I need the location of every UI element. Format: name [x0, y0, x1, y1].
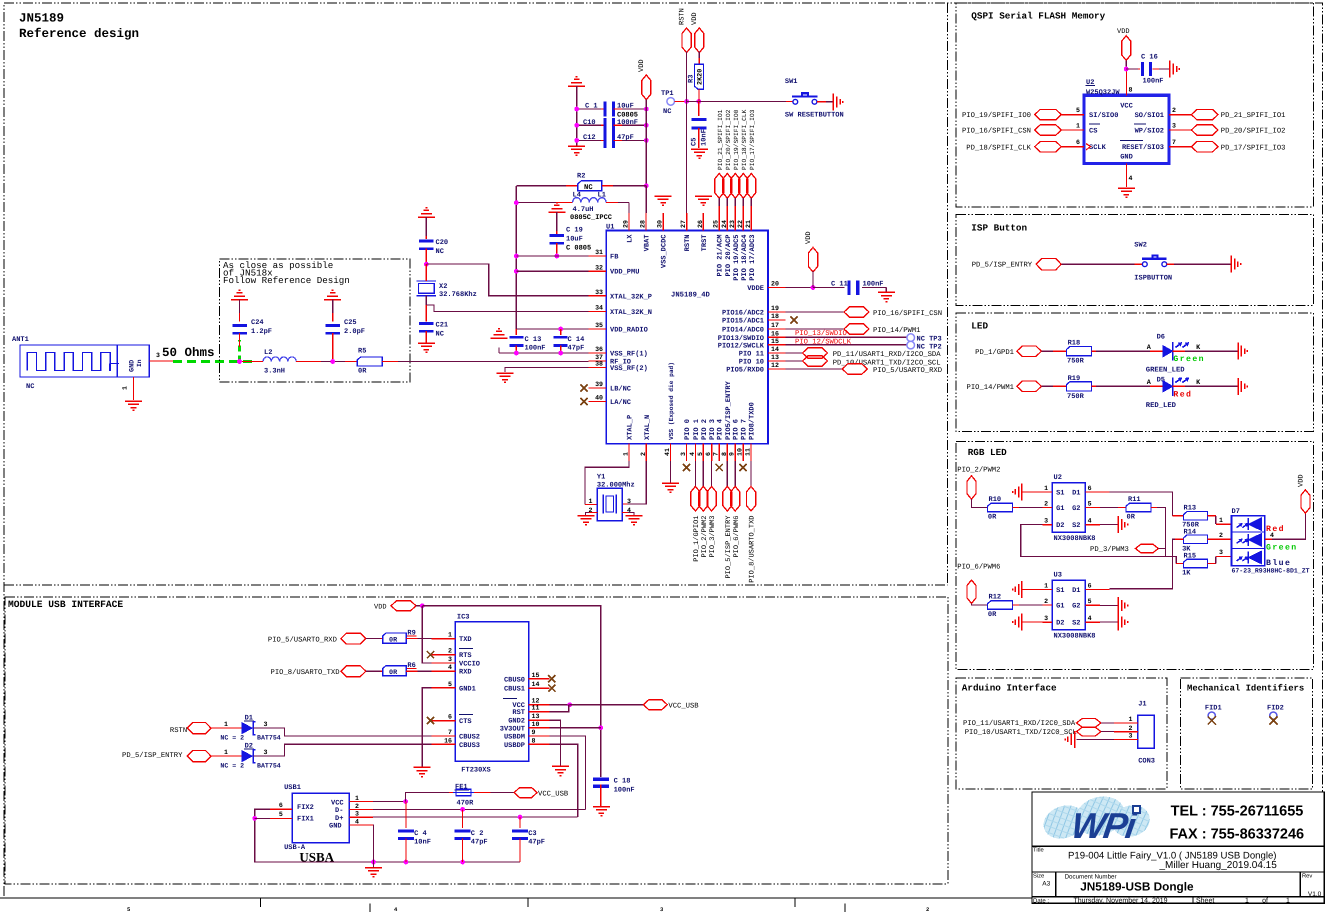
svg-text:1: 1 [1129, 716, 1133, 723]
svg-text:VSS_DCDC: VSS_DCDC [661, 235, 669, 269]
D2 loop to R15/PD_3 [1021, 525, 1176, 564]
junction [574, 138, 579, 143]
U1 pin 27 RSTN [686, 213, 688, 231]
svg-text:2.0pF: 2.0pF [344, 328, 365, 336]
svg-text:G2: G2 [1072, 603, 1080, 611]
svg-text:14: 14 [771, 346, 779, 353]
svg-text:FB: FB [610, 254, 619, 262]
svg-text:6: 6 [1076, 139, 1080, 146]
svg-text:1: 1 [224, 721, 228, 728]
svg-text:PIO14/ADC0: PIO14/ADC0 [722, 326, 764, 335]
Y1 pin2 to ground [589, 512, 597, 514]
svg-text:2: 2 [355, 803, 359, 810]
IC3 pin 6 CTS [431, 720, 455, 722]
U1 pin 15 PIO12/SWCLK [768, 344, 786, 346]
svg-text:PIO_2/PWM2: PIO_2/PWM2 [700, 516, 709, 558]
ground below C5 [691, 149, 708, 158]
svg-text:SW1: SW1 [785, 78, 798, 86]
svg-text:16: 16 [444, 737, 452, 744]
junction [644, 123, 649, 128]
ground at ANT1 [125, 401, 142, 410]
svg-text:Red: Red [1266, 525, 1285, 534]
U1 pin 2 XTAL_N [645, 444, 647, 461]
junction at C24/L2 [237, 359, 242, 364]
USBDM wire [550, 736, 586, 809]
svg-text:R3: R3 [688, 75, 696, 83]
svg-text:750R: 750R [1067, 393, 1085, 401]
port flag PD_5/ISP_ENTRY [1036, 258, 1061, 270]
crystal X2 32.768Khz [417, 281, 437, 296]
svg-text:VDD_PMU: VDD_PMU [610, 269, 639, 277]
svg-text:PD_21_SPIFI_IO1: PD_21_SPIFI_IO1 [1221, 112, 1286, 120]
svg-text:7: 7 [1172, 139, 1176, 146]
svg-text:0R: 0R [1127, 514, 1136, 522]
junction [1124, 67, 1129, 72]
capacitor C18 [593, 778, 609, 788]
svg-text:Arduino Interface: Arduino Interface [962, 683, 1057, 694]
svg-text:Green: Green [1173, 355, 1205, 364]
port flag PIO_16/SPIFI_CSN [844, 307, 869, 317]
wire L2 to C25/R5 [296, 361, 321, 363]
svg-text:PD_5/ISP_ENTRY: PD_5/ISP_ENTRY [122, 751, 183, 760]
U2 pin 4 GND [1125, 164, 1127, 188]
svg-text:VCC_USB: VCC_USB [538, 791, 569, 799]
svg-text:3: 3 [448, 656, 452, 663]
capacitor C4 [398, 830, 414, 841]
svg-text:XTAL_32K_N: XTAL_32K_N [610, 309, 652, 317]
U1 pin 7 PIO 4 [718, 444, 720, 461]
svg-text:100nF: 100nF [1143, 78, 1164, 86]
U1 pin 21 PIO 17/ADC3 [750, 213, 752, 231]
svg-text:0R: 0R [988, 514, 997, 522]
svg-text:2: 2 [640, 452, 647, 456]
VDD bus down to VBAT [645, 100, 647, 186]
svg-text:Title: Title [1033, 847, 1044, 854]
svg-text:67-23_R93H8HC-8D1_ZT: 67-23_R93H8HC-8D1_ZT [1232, 568, 1310, 575]
svg-text:23: 23 [729, 220, 736, 228]
matching network note box [220, 259, 411, 382]
svg-text:0805C_IPCC: 0805C_IPCC [570, 214, 612, 222]
ISP Button section box [956, 215, 1313, 306]
D- net [373, 808, 586, 810]
port flag PIO_17/SPIFI_IO3 [747, 174, 756, 199]
test point TP2 [907, 341, 915, 349]
junction [514, 269, 519, 274]
U1 pin 5 PIO 2 [702, 444, 704, 461]
svg-text:33: 33 [595, 289, 603, 296]
svg-text:2: 2 [1129, 725, 1133, 732]
junction [514, 351, 519, 356]
svg-text:L2: L2 [264, 349, 272, 357]
svg-text:PIO 2: PIO 2 [701, 419, 709, 440]
port flag PIO_21_SPIFI_IO1 [715, 174, 724, 199]
FB bus vertical [515, 186, 517, 329]
svg-text:6: 6 [448, 714, 452, 721]
junction [424, 262, 429, 267]
svg-text:PIO5/RXD0: PIO5/RXD0 [726, 366, 764, 375]
S2 ground (right) [1085, 524, 1100, 526]
port flag PIO_2/PWM2 [702, 461, 704, 486]
junction [420, 603, 425, 608]
IC3 pin 9 USBDM [529, 735, 550, 737]
no-connect CBUS0 [548, 675, 555, 682]
svg-text:C 2: C 2 [471, 830, 484, 838]
U1 pin 18 PIO15/ADC1 [768, 319, 786, 321]
svg-text:TEL : 755-26711655: TEL : 755-26711655 [1171, 804, 1304, 820]
Arduino Interface section box [956, 678, 1167, 789]
svg-text:PIO_17/SPIFI_IO3: PIO_17/SPIFI_IO3 [749, 109, 756, 170]
U1 pin 25 PIO 21/ACM [718, 213, 720, 231]
USBDP wire [550, 744, 578, 817]
svg-text:6: 6 [1088, 582, 1092, 589]
junction [460, 807, 465, 812]
capacitor C24 [232, 324, 247, 335]
ground at SW1 [833, 93, 842, 110]
svg-text:R18: R18 [1068, 340, 1081, 348]
svg-text:SCLK: SCLK [1089, 144, 1107, 152]
svg-text:PIO_8/USARTO_TXD: PIO_8/USARTO_TXD [271, 668, 340, 677]
svg-text:PIO8/TXD0: PIO8/TXD0 [748, 402, 757, 440]
ground above C19 [548, 203, 565, 212]
svg-text:3: 3 [1219, 549, 1223, 556]
svg-text:0R: 0R [988, 611, 997, 619]
test point TP3 [907, 334, 915, 342]
svg-text:34: 34 [595, 305, 603, 312]
no-connect RTS [427, 651, 434, 658]
IC3 pin 10 3V3OUT [529, 727, 550, 729]
USB1 pins 1-4 [349, 801, 373, 803]
svg-text:D2: D2 [1056, 522, 1064, 530]
svg-text:Sheet: Sheet [1196, 896, 1214, 904]
svg-text:BAT754: BAT754 [257, 734, 281, 741]
svg-text:Reference design: Reference design [19, 27, 139, 41]
svg-text:10nF: 10nF [414, 839, 431, 847]
resistor R12 [988, 601, 1013, 610]
svg-text:CTS: CTS [459, 718, 472, 726]
U2 pin 7 RESET/SIO3 [1169, 146, 1191, 148]
svg-text:PIO_5/ISP_ENTRY: PIO_5/ISP_ENTRY [724, 515, 733, 579]
svg-text:PIO_16/SPIFI_CSN: PIO_16/SPIFI_CSN [962, 127, 1031, 136]
IC3 pin 8 USBDP [529, 743, 550, 745]
svg-text:ISP Button: ISP Button [971, 223, 1027, 234]
capacitor C1 [577, 108, 601, 110]
VDD power flag [642, 75, 651, 100]
svg-text:CBUS0: CBUS0 [504, 676, 525, 684]
svg-text:6: 6 [1088, 485, 1092, 492]
svg-text:10: 10 [532, 721, 540, 728]
title block frame [1032, 792, 1324, 903]
svg-text:PIO 1: PIO 1 [693, 419, 701, 440]
svg-text:XTAL_P: XTAL_P [627, 415, 635, 440]
svg-text:CS: CS [1089, 128, 1097, 136]
no-connect pin 18 [790, 316, 797, 323]
svg-text:47pF: 47pF [617, 134, 634, 142]
capacitor C14 [554, 336, 568, 347]
svg-text:ANT1: ANT1 [12, 336, 29, 344]
svg-text:R12: R12 [989, 594, 1002, 602]
svg-text:19: 19 [771, 305, 779, 312]
svg-text:PIO 11: PIO 11 [739, 351, 764, 359]
svg-text:C 18: C 18 [614, 778, 631, 786]
USB1 pin 5 [270, 817, 292, 819]
no-connect pin 10 [740, 464, 747, 471]
3V3OUT wire [550, 727, 601, 729]
svg-text:C5: C5 [691, 138, 699, 146]
svg-text:PIO 18/ADC4: PIO 18/ADC4 [740, 235, 749, 281]
junction at C25 [330, 359, 335, 364]
svg-text:R19: R19 [1068, 375, 1081, 383]
ground at U3 S1 [1013, 581, 1022, 598]
svg-text:VDD_RADIO: VDD_RADIO [610, 327, 648, 335]
svg-text:4: 4 [448, 664, 452, 671]
svg-text:4: 4 [689, 452, 696, 456]
svg-text:CBUS2: CBUS2 [459, 734, 480, 742]
svg-text:C3: C3 [528, 830, 536, 838]
junction [574, 107, 579, 112]
antenna ANT1 [20, 345, 149, 377]
QSPI section box [956, 3, 1313, 207]
svg-text:2K20: 2K20 [697, 69, 705, 85]
svg-text:PIO_6/PWM6: PIO_6/PWM6 [732, 516, 741, 558]
svg-text:R5: R5 [358, 348, 366, 356]
svg-text:36: 36 [595, 346, 603, 353]
capacitor C11 [847, 280, 859, 295]
svg-text:7: 7 [713, 452, 720, 456]
svg-text:GREEN_LED: GREEN_LED [1146, 367, 1186, 375]
svg-text:15: 15 [532, 672, 540, 679]
svg-text:SI/SIO0: SI/SIO0 [1089, 111, 1118, 120]
RST jog to VCC [550, 705, 569, 712]
VDD power flag RGB [1301, 490, 1310, 513]
svg-text:VCC_USB: VCC_USB [668, 703, 699, 711]
D7 LED element 1 [1237, 518, 1262, 531]
svg-text:30: 30 [657, 220, 664, 228]
VDD wire to 3V3OUT/C18 [422, 606, 601, 777]
svg-text:5: 5 [697, 452, 704, 456]
svg-text:18: 18 [771, 313, 779, 320]
svg-text:LB/NC: LB/NC [610, 385, 631, 394]
U2 pin 2 SO/SIO1 [1169, 114, 1191, 116]
J1 pin 1 [1114, 722, 1138, 724]
svg-text:USBDM: USBDM [504, 734, 525, 742]
svg-text:JN5189_4D: JN5189_4D [671, 292, 711, 300]
svg-text:L4: L4 [573, 192, 581, 200]
svg-text:VDDE: VDDE [747, 285, 764, 293]
svg-text:CBUS3: CBUS3 [459, 742, 480, 750]
svg-text:40: 40 [595, 395, 603, 402]
VCC net to FE1 [373, 801, 406, 803]
junction [684, 99, 689, 104]
svg-text:PIO_16/SPIFI_CSN: PIO_16/SPIFI_CSN [873, 309, 942, 318]
svg-text:6: 6 [705, 452, 712, 456]
svg-text:20: 20 [771, 281, 779, 288]
svg-text:Follow Reference Design: Follow Reference Design [223, 275, 350, 286]
svg-text:C 13: C 13 [525, 336, 542, 344]
svg-text:FID2: FID2 [1267, 705, 1284, 713]
svg-text:3: 3 [156, 352, 160, 359]
svg-text:PIO 0: PIO 0 [684, 419, 692, 440]
svg-text:RXD: RXD [459, 669, 472, 677]
wire to TP2 [786, 344, 907, 346]
svg-text:1: 1 [589, 498, 593, 505]
U1 pin 4 PIO 1 [694, 444, 696, 461]
svg-text:5: 5 [1076, 107, 1080, 114]
svg-text:S1: S1 [1056, 489, 1064, 497]
no-connect pin 7 [716, 464, 723, 471]
svg-text:XTAL_N: XTAL_N [644, 415, 652, 440]
U1 pin 38 VSS_RF(2) [589, 367, 607, 369]
ground at GND1 [414, 767, 431, 776]
svg-text:1: 1 [1076, 123, 1080, 130]
ground above C24 [231, 290, 248, 299]
svg-text:SO/SIO1: SO/SIO1 [1135, 111, 1164, 120]
resistor R18 [1066, 347, 1091, 356]
capacitor C25 [325, 324, 340, 335]
ground below U2 [1118, 188, 1135, 197]
pin12 flag PIO_5/USARTO_RXD [786, 368, 843, 370]
svg-text:S2: S2 [1072, 522, 1080, 530]
ground at U2 S2 [1118, 516, 1127, 533]
svg-text:NX3008NBK8: NX3008NBK8 [1054, 535, 1096, 543]
no-connect pin 40 [580, 398, 587, 405]
svg-text:VSS_RF(1): VSS_RF(1) [610, 350, 648, 359]
capacitor C12 [577, 139, 601, 141]
U2 pin 6 SCLK [1061, 146, 1084, 148]
port flag PD_5/ISP_ENTRY USB [187, 751, 211, 762]
junction [644, 107, 649, 112]
RSTN wire down to pin 27 [686, 101, 688, 213]
svg-text:BAT754: BAT754 [257, 762, 281, 769]
IC3 pin 13 GND2 [529, 719, 550, 721]
port flag PIO_14/PWM1 [1017, 381, 1042, 391]
U1 pin 36 VSS_RF(1) [589, 352, 607, 354]
svg-text:PIO_20/SPIFI_IO2: PIO_20/SPIFI_IO2 [725, 109, 732, 170]
svg-text:PD_5/ISP_ENTRY: PD_5/ISP_ENTRY [972, 261, 1033, 270]
svg-text:FIX1: FIX1 [297, 816, 314, 824]
ground below cap bank [568, 146, 585, 155]
svg-text:W25Q32JW: W25Q32JW [1086, 89, 1120, 97]
pin14 flag PD_11 [786, 352, 803, 354]
svg-text:1: 1 [1044, 485, 1048, 492]
svg-text:10uF: 10uF [617, 103, 634, 111]
MCU U1 JN5189_4D body [606, 231, 768, 444]
svg-text:PIO_11/USART1_RXD/I2C0_SDA: PIO_11/USART1_RXD/I2C0_SDA [963, 719, 1076, 728]
U1 pin 30 VSS_DCDC [662, 213, 664, 231]
capacitor C16 [1141, 62, 1152, 76]
svg-text:1: 1 [224, 749, 228, 756]
svg-text:2: 2 [1044, 598, 1048, 605]
capacitor C13 [515, 329, 517, 335]
svg-text:U3: U3 [1054, 572, 1062, 580]
svg-text:16: 16 [771, 331, 779, 338]
svg-text:NC: NC [26, 383, 34, 391]
svg-text:10uF: 10uF [566, 236, 583, 244]
capacitor C21 [419, 322, 434, 333]
port flag PIO_19/SPIFI_IO0 [731, 174, 740, 199]
VDD flag USB module [391, 601, 416, 611]
junction [696, 99, 701, 104]
svg-text:5: 5 [1088, 598, 1092, 605]
svg-text:U2: U2 [1054, 474, 1062, 482]
svg-text:39: 39 [595, 381, 603, 388]
svg-text:JN5189-USB Dongle: JN5189-USB Dongle [1080, 880, 1194, 894]
svg-text:6: 6 [279, 802, 283, 809]
svg-text:4.7uH: 4.7uH [573, 206, 594, 214]
ground at Y1 pin2 [578, 516, 595, 525]
capacitor C5 [691, 118, 706, 130]
svg-text:2: 2 [1219, 532, 1223, 539]
svg-text:Thursday, November 14, 2019: Thursday, November 14, 2019 [1074, 896, 1168, 904]
ground at SW2 [1231, 256, 1240, 273]
U1 pin 16 PIO13/SWDIO [768, 336, 786, 338]
port flag PD_20/SPIFI_IO2 [1191, 125, 1218, 135]
svg-text:PD_20/SPIFI_IO2: PD_20/SPIFI_IO2 [1221, 127, 1286, 136]
FIX tie to ground rail [255, 809, 374, 862]
capacitor C19 [550, 234, 565, 245]
svg-text:47pF: 47pF [568, 344, 585, 352]
U3 D1 wire to R14 [1085, 588, 1109, 590]
svg-text:PIO 4: PIO 4 [717, 419, 725, 440]
svg-text:TP1: TP1 [661, 90, 674, 98]
svg-text:GND: GND [329, 823, 342, 831]
U3 S2 ground [1085, 621, 1100, 623]
svg-text:9: 9 [532, 729, 536, 736]
svg-text:NC TP3: NC TP3 [917, 335, 942, 343]
port flag PIO_2/PWM2 [967, 476, 976, 499]
svg-text:1: 1 [623, 452, 630, 456]
no-connect pin 39 [580, 384, 587, 391]
svg-text:2: 2 [1044, 501, 1048, 508]
svg-text:4: 4 [1129, 175, 1133, 182]
svg-text:750R: 750R [1067, 358, 1085, 366]
svg-text:C12: C12 [583, 134, 596, 142]
capacitor C13 [509, 336, 523, 347]
U1 pin 41 VSS (Exposed die pad) [670, 444, 672, 461]
svg-text:CBUS1: CBUS1 [504, 686, 525, 694]
svg-text:1: 1 [448, 632, 452, 639]
svg-text:PD_1/GPD1: PD_1/GPD1 [975, 348, 1014, 357]
port flag PIO_3/PWM3 [711, 461, 713, 486]
resistor R6 [381, 670, 383, 672]
svg-text:4: 4 [1270, 532, 1274, 539]
port flag PD_1/GPD1 [1017, 346, 1042, 356]
svg-text:0R: 0R [389, 669, 398, 677]
svg-text:R10: R10 [989, 496, 1002, 504]
ground at U3 D2 [1013, 614, 1022, 631]
svg-text:8: 8 [1129, 87, 1133, 94]
svg-text:PIO 17/ADC3: PIO 17/ADC3 [748, 235, 757, 281]
svg-text:10nF: 10nF [701, 129, 709, 146]
svg-text:PIO16/ADC2: PIO16/ADC2 [722, 309, 764, 318]
dual MOSFET U2 NX3008NBK8 [1052, 483, 1085, 533]
ground at Y1 pin4 [626, 516, 643, 525]
ground at J1 [1065, 731, 1074, 748]
ground at USB rail [365, 868, 382, 877]
resistor R2 (NC) [529, 185, 566, 187]
svg-text:3.3nH: 3.3nH [264, 368, 285, 376]
svg-text:50 Ohms: 50 Ohms [162, 346, 215, 360]
wire R5 to RF_IO [382, 361, 398, 363]
U1 pin 1 XTAL_P [628, 444, 630, 461]
ground at C16 [1170, 61, 1179, 78]
capacitor C2 [462, 809, 464, 828]
port flag PIO_20/SPIFI_IO2 [723, 174, 732, 199]
svg-text:VSS (Exposed die pad): VSS (Exposed die pad) [668, 362, 675, 440]
GND pin 4 down [372, 825, 375, 862]
svg-text:14: 14 [532, 681, 540, 688]
port flag PIO_10/USART1_TXD/I2C0_SCL [1077, 727, 1101, 736]
svg-text:3: 3 [1172, 123, 1176, 130]
